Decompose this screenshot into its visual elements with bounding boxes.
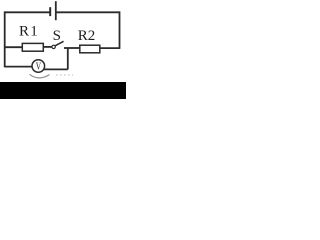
svg-text:R2: R2 [78, 28, 96, 44]
svg-text:R1: R1 [19, 23, 39, 39]
svg-text:S: S [53, 28, 61, 44]
svg-text:V: V [36, 62, 42, 73]
